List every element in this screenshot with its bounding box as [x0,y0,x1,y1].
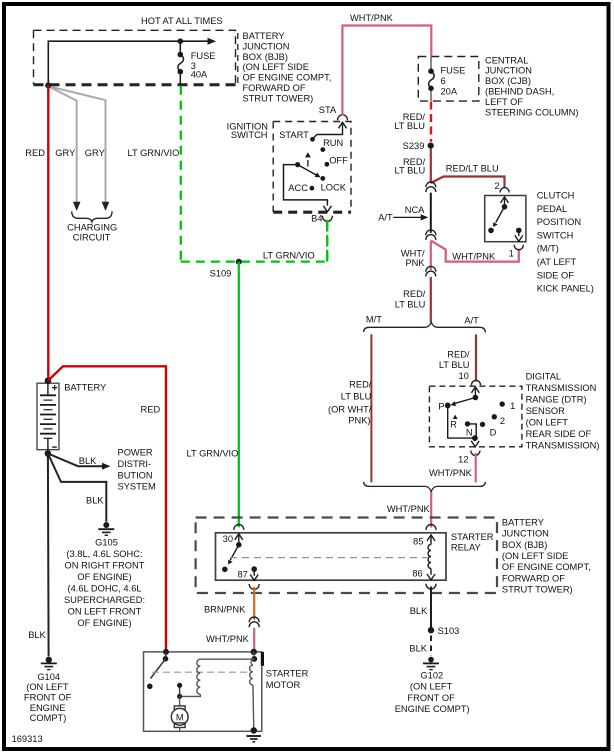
solenoid mechanical link dashed [152,671,249,673]
wire LT GRN/VIO solid to starter relay [238,262,240,528]
ground G104 [46,657,52,663]
pin 85 arrow into relay [427,535,435,541]
connector arc pin 30 [234,525,244,530]
svg-text:P: P [438,401,444,411]
svg-text:B4: B4 [311,213,322,223]
pin 12 node and arrow out [472,435,478,441]
svg-text:SUPERCHARGED:: SUPERCHARGED: [64,595,145,605]
wire RED to starter motor [48,366,166,651]
battery junction box BJB (fuse 3) dashed box [34,30,236,84]
svg-text:BLK: BLK [28,630,46,640]
rotor position indicator triangle [305,152,311,157]
node starter case ground [251,727,257,733]
svg-text:STA: STA [319,105,337,115]
inline connector pair C [426,266,436,271]
svg-text:JUNCTION: JUNCTION [485,66,532,76]
connector arc pin 1 [514,245,523,250]
svg-text:ON RIGHT FRONT: ON RIGHT FRONT [65,561,145,571]
svg-text:RED/: RED/ [447,349,470,359]
svg-text:BATTERY: BATTERY [502,517,544,527]
central junction box CJB dashed box [418,57,479,102]
rotor pivot and armature [295,162,300,167]
wire BRN/PNK from pin 87 [253,587,255,620]
svg-text:RUN: RUN [323,138,343,148]
svg-text:HOT AT ALL TIMES: HOT AT ALL TIMES [141,16,223,26]
svg-text:D: D [490,428,497,438]
svg-text:MOTOR: MOTOR [266,680,301,690]
svg-text:JUNCTION: JUNCTION [243,41,290,51]
motor M [174,706,185,711]
svg-text:BOX (BJB): BOX (BJB) [243,52,288,62]
fuse F6 20A [430,57,432,102]
battery - terminal mark [52,446,57,448]
wire WHT/PNK from pin 12 [475,453,477,483]
brace M/T A/T split [364,322,486,333]
svg-text:OF ENGINE): OF ENGINE) [77,572,131,582]
contact 2 [492,414,497,419]
svg-text:FORWARD OF: FORWARD OF [243,83,306,93]
svg-text:ACC: ACC [288,183,308,193]
starter relay box [216,533,447,580]
svg-text:BRN/PNK: BRN/PNK [204,605,246,615]
svg-text:N: N [466,428,473,438]
svg-text:R: R [450,420,457,430]
svg-text:2: 2 [495,181,500,191]
svg-text:SWITCH: SWITCH [231,130,268,140]
svg-text:WHT/PNK: WHT/PNK [350,13,394,23]
connector B4 arc [322,216,332,222]
pin 1 arrow out of switch [518,230,520,236]
pin 86 arrow out of relay [430,569,432,575]
svg-text:DISTRI-: DISTRI- [118,459,152,469]
svg-text:(3.8L, 4.6L SOHC:: (3.8L, 4.6L SOHC: [66,549,142,559]
svg-text:WHT/PNK: WHT/PNK [387,504,431,514]
svg-text:(ON LEFT SIDE: (ON LEFT SIDE [502,551,568,561]
wire WHT/PNK to starter motor [253,628,255,651]
svg-text:WHT/PNK: WHT/PNK [206,634,250,644]
relay contact 30 and armature [236,542,242,548]
svg-text:6: 6 [441,76,446,86]
wire from pivot to B4 [284,165,328,206]
svg-text:S239: S239 [403,141,425,151]
splice S239 [428,143,434,149]
wire A/T RED/LT BLU [475,334,477,381]
wire RED/LT BLU to M/T A/T brace [430,277,432,322]
svg-text:START: START [279,130,309,140]
splice S109 [236,259,242,265]
svg-text:OF ENGINE COMPT,: OF ENGINE COMPT, [502,562,591,572]
wire WHT/PNK clutch return [431,241,519,262]
svg-text:BOX (CJB): BOX (CJB) [485,76,531,86]
svg-text:12: 12 [458,454,468,464]
svg-text:ENGINE: ENGINE [30,703,66,713]
label RED/ LT BLU (OR WHT/ PNK) [328,380,372,426]
svg-text:(4.6L DOHC, 4.6L: (4.6L DOHC, 4.6L [67,584,141,594]
svg-text:1: 1 [509,248,514,258]
svg-text:FRONT OF: FRONT OF [24,693,72,703]
svg-text:40A: 40A [191,70,208,80]
svg-text:RANGE (DTR): RANGE (DTR) [526,394,587,404]
svg-text:BLK: BLK [79,456,97,466]
ground G105 [103,522,109,528]
svg-text:WHT/PNK: WHT/PNK [429,468,473,478]
BJB label text [243,31,332,103]
svg-text:RED: RED [25,148,45,158]
node battery positive [45,378,52,385]
svg-text:OF ENGINE): OF ENGINE) [77,618,131,628]
svg-text:POWER: POWER [118,448,153,458]
svg-text:SIDE OF: SIDE OF [537,270,575,280]
svg-text:RED/LT BLU: RED/LT BLU [446,164,499,174]
svg-text:LEFT OF: LEFT OF [485,97,523,107]
wire to motor [179,696,181,705]
svg-text:CLUTCH: CLUTCH [537,191,575,201]
svg-text:169313: 169313 [12,734,43,744]
svg-text:1: 1 [510,401,515,411]
svg-text:ENGINE COMPT): ENGINE COMPT) [395,704,470,714]
pin 2 arrow into switch [501,197,509,203]
svg-text:PNK: PNK [405,258,425,268]
battery junction box BJB (starter relay) dashed box [196,518,497,594]
svg-text:(ON LEFT SIDE: (ON LEFT SIDE [243,62,309,72]
svg-text:TRANSMISSION): TRANSMISSION) [526,440,600,450]
clutch pedal position switch box [485,196,526,242]
svg-text:FUSE: FUSE [191,51,216,61]
svg-text:M/T: M/T [366,314,382,324]
ground G102 [428,657,434,663]
starter motor box [144,652,262,731]
inline connector pair B [426,230,436,235]
svg-text:TRANSMISSION: TRANSMISSION [526,383,597,393]
wire LT GRN/VIO dashed from B4 [326,220,328,262]
pull-in winding coil [197,659,200,694]
wire LT GRN/VIO dashed from fuse 3 [181,86,327,262]
solenoid switch [165,652,168,659]
svg-text:(M/T): (M/T) [537,244,559,254]
svg-text:FUSE: FUSE [441,66,466,76]
wire WHT/PNK from STA to CJB [342,26,431,116]
svg-text:(ON LEFT: (ON LEFT [526,417,569,427]
DTR sensor label text [526,371,600,450]
svg-text:STRUT TOWER): STRUT TOWER) [243,93,314,103]
contact N [465,421,470,426]
wire BLK to G105 [48,454,106,522]
svg-text:BUTION: BUTION [118,470,153,480]
svg-text:A/T: A/T [378,213,393,223]
svg-text:RED: RED [141,405,161,415]
svg-text:BATTERY: BATTERY [243,31,285,41]
DTR rotor pivot and armature [473,395,479,401]
ground starter case [247,736,262,742]
splice S103 [428,627,434,633]
label G105 with notes [64,537,145,628]
wire NCA black segment [430,193,432,233]
battery plates [40,395,56,438]
wire BLK to power distribution [48,454,103,467]
wire to pull-in winding [200,658,254,660]
svg-text:(OR WHT/: (OR WHT/ [328,404,372,414]
wire P to pin 12 [448,405,475,438]
svg-text:LT BLU: LT BLU [341,392,372,402]
svg-text:STARTER: STARTER [266,668,309,678]
fuse 3 value label [191,51,216,80]
svg-text:(BEHIND DASH,: (BEHIND DASH, [485,87,554,97]
svg-text:LT GRN/VIO: LT GRN/VIO [128,148,180,158]
inline connector pair A [426,182,436,187]
connector arc pin 87 [249,584,259,589]
svg-text:LT BLU: LT BLU [395,166,426,176]
svg-text:LT BLU: LT BLU [394,121,425,131]
ignition switch dashed box [273,122,351,213]
svg-text:LT BLU: LT BLU [395,299,426,309]
svg-text:10: 10 [458,371,468,381]
svg-text:WHT/: WHT/ [401,248,425,258]
fuse 6 value label [441,66,466,97]
contact 1 [500,401,505,406]
relay coil [428,545,431,569]
svg-text:RELAY: RELAY [451,542,481,552]
contact D [480,422,485,427]
svg-text:REAR SIDE OF: REAR SIDE OF [526,429,592,439]
svg-text:RED/: RED/ [403,289,426,299]
brace M/T A/T join [364,482,486,492]
clutch switch contacts [488,228,494,234]
wire BLK dashed to G102 [430,636,432,656]
svg-text:POSITION: POSITION [537,217,581,227]
wire BLK to G104 [47,454,50,657]
node red feed at starter [163,649,169,655]
svg-text:PNK): PNK) [348,416,370,426]
pin STA arrow into switch [339,122,347,128]
svg-text:SENSOR: SENSOR [526,406,566,416]
wire RED/LT BLU dashed below fuse 6 [430,102,432,142]
clutch switch armature [502,204,508,210]
svg-text:PEDAL: PEDAL [537,204,568,214]
wire BLK from pin 86 [430,587,432,631]
CJB label text [485,55,579,117]
battery terminal stubs [47,381,49,454]
battery + terminal mark [52,385,57,390]
svg-text:RED/: RED/ [349,380,372,390]
pin 10 arrow into sensor [471,387,479,393]
svg-text:JUNCTION: JUNCTION [502,529,549,539]
svg-text:LT GRN/VIO: LT GRN/VIO [263,250,315,260]
label G102 [395,670,470,714]
svg-text:WHT/PNK: WHT/PNK [452,252,496,262]
svg-text:G102: G102 [420,670,443,680]
svg-text:SYSTEM: SYSTEM [118,482,156,492]
solenoid contact stub [177,694,182,699]
svg-text:BOX (BJB): BOX (BJB) [502,540,547,550]
node junction at BJB bottom [45,82,51,88]
svg-text:STRUT TOWER): STRUT TOWER) [502,585,573,595]
svg-text:LOCK: LOCK [321,182,347,192]
wire WHT/PNK to starter relay [430,492,432,528]
wire GRY 1 to charging circuit [51,87,77,202]
connector arc pin 2 [500,188,509,193]
svg-text:LT BLU: LT BLU [439,360,470,370]
svg-text:SWITCH: SWITCH [537,230,574,240]
svg-text:LT GRN/VIO: LT GRN/VIO [187,449,239,459]
svg-text:COMPT): COMPT) [30,713,67,723]
svg-text:BLK: BLK [86,496,104,506]
starter motor case thick segment [261,652,264,666]
pin 30 arrow into relay [235,534,243,540]
svg-text:STEERING COLUMN): STEERING COLUMN) [485,107,579,117]
svg-text:CHARGING: CHARGING [67,222,117,232]
wire N to pin 12 [468,424,477,437]
wire hot feed inside BJB [48,41,210,85]
inline connector pair starter feed [249,617,259,622]
svg-text:NCA: NCA [405,205,425,215]
wire coil to motor node [180,694,201,696]
svg-text:30: 30 [223,534,233,544]
connector arc pin 12 [471,451,480,456]
fuse F3 40A [178,41,184,84]
connector arc pin 10 [471,380,480,385]
node WHT/PNK feed at starter [251,649,257,655]
wire WHT/PNK vertical [430,241,432,270]
charging circuit brace [72,211,112,222]
pin 87 contact and arrow out [251,566,257,572]
svg-text:FORWARD OF: FORWARD OF [502,573,565,583]
clutch switch label text [537,191,594,294]
svg-text:G105: G105 [95,537,118,547]
svg-text:A/T: A/T [464,315,479,325]
connector STA arc [338,115,348,121]
svg-text:FRONT OF: FRONT OF [407,693,455,703]
svg-text:DIGITAL: DIGITAL [526,371,561,381]
BJB starter relay label text [502,517,591,594]
svg-text:86: 86 [412,569,422,579]
wire M/T RED/LT BLU (OR WHT/PNK) [370,334,372,482]
arrow right on hot feed [208,38,217,45]
svg-text:CENTRAL: CENTRAL [485,55,528,65]
connector arc pin 85 [426,525,436,530]
svg-text:BLK: BLK [409,644,427,654]
svg-text:(AT LEFT: (AT LEFT [537,257,577,267]
wire RED/LT BLU branch to clutch switch [431,177,505,189]
label G104 [24,672,72,723]
wire winding to case ground [252,685,255,731]
svg-text:ON LEFT FRONT: ON LEFT FRONT [68,607,142,617]
svg-text:M: M [176,712,184,722]
svg-text:GRY: GRY [55,148,75,158]
svg-text:S103: S103 [438,626,460,636]
BJB label tick line [237,33,239,85]
hold-in winding coil [250,659,255,685]
svg-text:20A: 20A [441,86,458,96]
svg-text:OFF: OFF [329,155,348,165]
wire RED/LT BLU from S239 [430,149,432,184]
pin B4 arrow out of switch [323,206,331,212]
wire GRY 2 to charging circuit [51,87,106,202]
label POWER DISTRIBUTION SYSTEM [118,448,156,492]
svg-text:OF ENGINE COMPT,: OF ENGINE COMPT, [243,73,332,83]
svg-text:KICK PANEL): KICK PANEL) [537,284,594,294]
contact P [445,403,451,409]
battery case [37,383,59,450]
svg-text:BATTERY: BATTERY [64,383,106,393]
wire RED battery feed [47,86,49,381]
connector arc pin 86 [426,584,436,589]
svg-text:87: 87 [237,570,247,580]
svg-text:(ON LEFT: (ON LEFT [26,682,69,692]
svg-text:BLK: BLK [410,606,428,616]
svg-text:S109: S109 [210,268,232,278]
svg-text:STARTER: STARTER [451,532,494,542]
svg-text:G104: G104 [37,672,60,682]
svg-text:85: 85 [413,536,423,546]
svg-text:(ON LEFT: (ON LEFT [410,682,453,692]
node battery negative [45,450,52,457]
DTR sensor dashed box [429,386,522,447]
relay mechanical link dashed [230,557,427,559]
svg-text:GRY: GRY [85,148,105,158]
svg-text:2: 2 [500,416,505,426]
svg-text:CIRCUIT: CIRCUIT [73,232,111,242]
